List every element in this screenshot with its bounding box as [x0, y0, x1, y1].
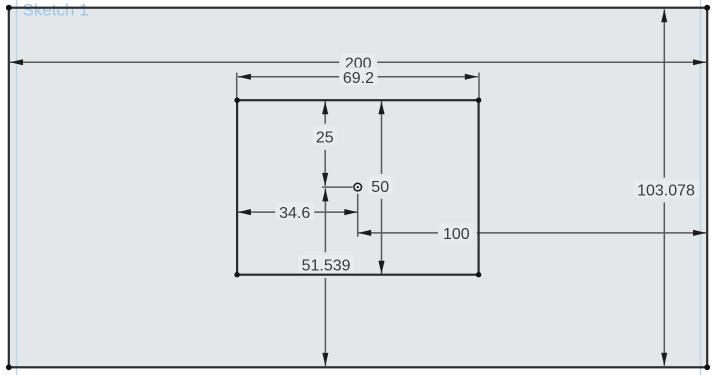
dim 34.6 line left segment [238, 211, 275, 213]
svg-text:34.6: 34.6 [279, 205, 310, 222]
dim 200 text [341, 53, 375, 73]
dim 34.6 left arrow [238, 209, 251, 215]
inner rect top-left vertex [234, 98, 239, 103]
dim 69.2 text [339, 67, 377, 87]
dim 69.2 line left segment [238, 76, 343, 78]
sketch plane left edge (blue) [16, 0, 18, 375]
dim 50 top arrow [378, 101, 384, 114]
dim 103.078 top arrow [661, 9, 667, 22]
dim 200 right arrow [693, 59, 706, 65]
dim 200 left arrow [10, 59, 23, 65]
dim 103.078 text [634, 180, 699, 200]
dim 34.6 right arrow [344, 209, 357, 215]
svg-text:25: 25 [316, 129, 334, 146]
centre point marker [354, 183, 362, 191]
dim 69.2 right extension line [478, 73, 480, 99]
dim 103.078 line bottom segment [663, 203, 665, 366]
outer rect top-right vertex [704, 5, 710, 11]
dim 50 line top segment [381, 101, 383, 174]
svg-text:51.539: 51.539 [302, 258, 351, 275]
outer rect bottom-right vertex [704, 364, 710, 370]
svg-text:100: 100 [443, 226, 470, 243]
outer rect top-left vertex [6, 5, 12, 11]
dim 25 line bottom segment [324, 150, 326, 186]
dim 103.078 bottom arrow [661, 353, 667, 366]
svg-text:Sketch 1: Sketch 1 [23, 0, 89, 19]
svg-text:69.2: 69.2 [343, 70, 374, 87]
svg-text:103.078: 103.078 [637, 183, 695, 200]
dim 34.6 line right segment [314, 211, 357, 213]
dim 69.2 left arrow [238, 74, 251, 80]
dim 100 right arrow [693, 230, 706, 236]
dim 25 line top segment [324, 101, 326, 124]
inner rect bottom-right vertex [476, 272, 481, 277]
dim 200 line left segment [10, 61, 339, 63]
dim 51.539 text [298, 255, 354, 275]
dim 100 line left segment [358, 232, 438, 234]
dim 25 top arrow [322, 101, 328, 114]
dim 51.539 line bottom segment [324, 278, 326, 366]
dim 200 line right segment [377, 61, 706, 63]
centre point vertical extension line [357, 194, 359, 237]
inner rect bottom-left vertex [234, 272, 239, 277]
dim 69.2 left extension line [236, 73, 238, 99]
dim 50 text [368, 176, 393, 196]
inner rectangle edge [237, 100, 479, 275]
svg-text:50: 50 [371, 179, 389, 196]
dim 51.539 top arrow [322, 188, 328, 201]
dim 50 line bottom segment [381, 199, 383, 274]
dim 34.6 text [276, 202, 314, 222]
inner rect top-right vertex [476, 98, 481, 103]
dim 25 text [312, 127, 337, 147]
dim 69.2 right arrow [465, 74, 478, 80]
sketch plane right edge (blue) [700, 0, 702, 375]
centre point horizontal extension line [322, 186, 353, 188]
dim 100 line right segment [477, 232, 706, 234]
dim 51.539 bottom arrow [322, 353, 328, 366]
dim 100 text [439, 224, 473, 244]
dim 25 bottom arrow [322, 173, 328, 186]
dim 69.2 line right segment [375, 76, 478, 78]
dim 103.078 line top segment [663, 9, 665, 177]
dim 50 bottom arrow [378, 261, 384, 274]
dim 100 left arrow [358, 230, 371, 236]
outer rect bottom-left vertex [6, 364, 12, 370]
dim 51.539 line top segment [324, 188, 326, 252]
